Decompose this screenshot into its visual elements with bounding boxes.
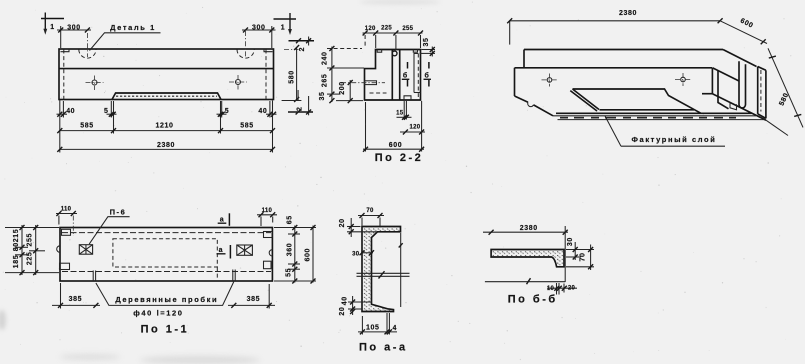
svg-text:255: 255: [402, 26, 413, 32]
section mark 1 (left): bar, arrow, label: [41, 18, 64, 20]
hidden edge right (dashed): [265, 50, 267, 100]
svg-text:б: б: [425, 71, 430, 79]
svg-text:225: 225: [27, 252, 34, 265]
svg-text:600: 600: [389, 142, 402, 149]
right extension lines: [274, 227, 316, 229]
svg-text:2380: 2380: [619, 10, 637, 17]
edge fitting right top: [264, 232, 273, 238]
centerline of right recess: [245, 31, 247, 57]
texture strip top line: [553, 115, 756, 117]
svg-text:185: 185: [13, 255, 20, 268]
edge fitting left top: [62, 229, 71, 235]
groove end slant: [712, 68, 739, 81]
svg-text:585: 585: [240, 123, 253, 130]
svg-text:40: 40: [258, 108, 267, 115]
svg-text:а: а: [219, 247, 224, 254]
wooden plug (side): [365, 81, 377, 85]
svg-text:2: 2: [299, 47, 306, 52]
dim 120 bottom: [400, 131, 425, 133]
dim 2380: [483, 231, 568, 233]
centerline of left recess: [86, 33, 88, 57]
texture layer dashed line (top): [62, 232, 271, 234]
svg-text:30: 30: [567, 237, 574, 246]
plug centerline strokes right: [233, 270, 235, 282]
top dim chain 120/225/255: [363, 32, 423, 34]
bottom extension lines: [60, 283, 62, 309]
inner opening (dashed rectangle): [113, 239, 217, 267]
corner fitting right: [264, 49, 273, 52]
channel section outline with concrete stipple: [362, 227, 401, 312]
svg-text:30: 30: [352, 252, 360, 258]
extension lines below panel: [59, 100, 61, 153]
svg-text:Деревянные пробки: Деревянные пробки: [115, 295, 218, 304]
dim row 585 / 1210 / 585: [60, 130, 273, 132]
edge fitting left bottom: [60, 263, 70, 269]
end rib slab top edge: [758, 67, 766, 71]
broken far edge line with break slash: [485, 281, 565, 283]
svg-text:По 1-1: По 1-1: [141, 323, 190, 335]
panel outline: [59, 49, 274, 100]
right slot: solid + dashed edges: [414, 54, 418, 93]
svg-text:б: б: [403, 71, 408, 79]
front top edge (groove): [515, 67, 713, 69]
svg-text:300: 300: [67, 24, 80, 31]
small rounded foot left of column: [730, 103, 737, 110]
hole left with crosshair: [92, 80, 97, 85]
bottom face right edge (long diagonal): [712, 94, 766, 121]
svg-text:2380: 2380: [157, 142, 175, 149]
SECTION 2-2: [319, 26, 435, 164]
svg-text:ф40 l=120: ф40 l=120: [133, 309, 183, 318]
svg-text:5: 5: [225, 108, 230, 115]
left extension lines: [5, 227, 59, 229]
dim 2 bottom right: [282, 100, 302, 102]
svg-text:55: 55: [285, 268, 292, 277]
svg-text:265: 265: [322, 74, 329, 87]
edge fitting right bottom: [264, 261, 272, 269]
dim 105 / 4 bottom: [361, 316, 363, 335]
svg-text:65: 65: [286, 215, 293, 224]
svg-text:240: 240: [322, 51, 329, 64]
cut mark b (right): strokes and label: [428, 62, 430, 69]
svg-text:70: 70: [580, 253, 587, 262]
svg-text:580: 580: [289, 70, 296, 83]
svg-text:35: 35: [423, 38, 430, 47]
svg-text:4: 4: [393, 325, 398, 332]
svg-text:По б-б: По б-б: [508, 293, 558, 305]
dim chain 65/360/55: [294, 226, 296, 283]
svg-text:5: 5: [104, 108, 109, 115]
svg-text:15: 15: [396, 110, 404, 116]
svg-text:П-6: П-6: [110, 207, 127, 216]
dim row 2380: [60, 148, 273, 150]
dim 600 (slanted): [720, 21, 767, 44]
svg-text:2: 2: [297, 106, 304, 111]
svg-text:2380: 2380: [520, 225, 538, 232]
svg-text:20: 20: [339, 307, 346, 316]
dim 385 left: [52, 304, 100, 306]
pad front edge: [600, 109, 695, 111]
svg-text:105: 105: [366, 325, 379, 332]
SECTION b-b: [483, 225, 594, 305]
hole right crosshair: [681, 77, 686, 82]
svg-text:200: 200: [339, 81, 346, 94]
dim 600 right: [312, 226, 314, 283]
end rib column with rounded foot: [739, 61, 746, 108]
section outline with stepped left side: [365, 50, 421, 101]
dim 110 right: [257, 214, 277, 216]
svg-text:120: 120: [365, 26, 376, 32]
corner fitting left: [61, 49, 70, 52]
top right end slant: [723, 50, 757, 67]
AXONOMETRIC VIEW: [507, 10, 803, 146]
left edge of face: [514, 68, 516, 96]
dim 2 top right: [289, 40, 315, 42]
dim chain 255/225 (inner): [35, 225, 37, 275]
end rib slab front edge: [757, 67, 759, 114]
dim 30: [574, 242, 576, 260]
face bottom edge stub at right: [702, 93, 712, 95]
strip section outline with stipple: [491, 250, 564, 267]
hidden line bottom: [370, 92, 387, 94]
svg-text:70: 70: [366, 208, 374, 214]
svg-text:По а-а: По а-а: [359, 342, 408, 354]
dim 35 right: [422, 49, 436, 51]
top fitting notch right: [413, 50, 417, 53]
svg-text:225: 225: [381, 26, 392, 32]
svg-text:110: 110: [61, 207, 72, 213]
wooden plug left (crossed): [79, 245, 92, 255]
groove line across panel: [59, 68, 274, 70]
svg-text:255: 255: [27, 233, 34, 246]
svg-text:20: 20: [568, 285, 576, 291]
svg-text:1: 1: [50, 24, 55, 31]
hole right with crosshair: [236, 80, 241, 85]
left edge of top band: [523, 50, 525, 68]
dim 2380: [510, 20, 720, 22]
svg-text:385: 385: [247, 296, 260, 303]
svg-text:Деталь 1: Деталь 1: [110, 23, 156, 32]
pad left end slants: [570, 89, 599, 111]
hole left crosshair: [547, 78, 552, 83]
plan outline: [60, 228, 272, 282]
dim 385 right: [228, 304, 275, 306]
edge notch right (semicircle): [269, 250, 272, 256]
cut mark b (left): strokes and label: [407, 62, 409, 69]
inner wall edge with foot slant: [718, 71, 729, 109]
texture strip bottom line: [558, 119, 765, 121]
dim 110 left: [56, 213, 77, 215]
svg-text:20: 20: [339, 218, 346, 227]
dim 20 top left: [347, 226, 361, 228]
dim 15 bottom: [403, 101, 405, 120]
dim 300 right: [271, 26, 273, 48]
svg-text:1210: 1210: [156, 123, 174, 130]
bottom-left slant edge with notch: [515, 96, 554, 116]
svg-text:300: 300: [252, 24, 265, 31]
svg-text:585: 585: [80, 123, 93, 130]
dims 40/20 bottom left: [348, 301, 372, 303]
section mark 1 (right): bar, arrow, label: [274, 18, 297, 20]
svg-text:Фактурный слой: Фактурный слой: [632, 135, 717, 144]
dashed line above bottom: [62, 271, 271, 273]
cut extent thin line with break: [400, 233, 402, 307]
svg-text:80: 80: [13, 242, 20, 251]
svg-text:35: 35: [319, 92, 326, 101]
hole circle: [392, 51, 397, 56]
pad texture dotted line: [116, 95, 217, 97]
dim 70 top: [358, 215, 384, 217]
dim 580 right: [296, 48, 298, 101]
bottom pad (trapezoid): [112, 93, 221, 100]
bottom face front edge: [556, 112, 752, 114]
svg-text:40: 40: [66, 108, 75, 115]
svg-text:120: 120: [410, 125, 421, 131]
dim chain 215/80/185 (outer): [21, 225, 23, 275]
dim 200: [349, 80, 351, 101]
rib edge lines: [391, 50, 393, 101]
svg-text:1: 1: [281, 25, 286, 32]
lifting recess left (dashed arc, detail 1): [79, 50, 96, 59]
dim 300 left: [60, 26, 62, 48]
bottom dims 10 / 20: [556, 283, 558, 295]
texture strip dashes: [560, 117, 736, 119]
hidden edge left (dashed): [63, 50, 65, 100]
svg-text:По 2-2: По 2-2: [375, 152, 424, 164]
dim 580 (slanted): [768, 48, 803, 127]
svg-text:215: 215: [13, 229, 20, 242]
lifting recess right (dashed arc): [237, 50, 254, 59]
top fitting notch left: [377, 50, 382, 53]
dim 600: [421, 101, 423, 152]
svg-text:600: 600: [305, 248, 312, 261]
right edge of face: [711, 68, 713, 94]
plug centerline strokes left: [93, 271, 95, 282]
bottom notch: [404, 96, 411, 100]
PLAN SECTION 1-1: [5, 207, 316, 336]
svg-text:40: 40: [342, 296, 349, 305]
svg-text:10: 10: [547, 286, 555, 292]
FRONT ELEVATION VIEW: [41, 13, 314, 153]
end rib slab hidden edge: [760, 70, 762, 112]
pad on bottom face: top edge, step, right slant: [573, 89, 702, 113]
scan smudges: [0, 0, 440, 364]
back top edge: [524, 49, 723, 51]
edge notch left (semicircle): [57, 246, 60, 253]
dim 70: [590, 245, 592, 271]
svg-text:385: 385: [69, 296, 82, 303]
svg-text:360: 360: [286, 243, 293, 256]
end rib slab outer edge: [765, 70, 767, 118]
dim row 40 / 5 ... 5 / 40: [57, 113, 68, 115]
left dim chain 240/265/35: [331, 47, 333, 103]
svg-text:110: 110: [262, 208, 273, 214]
SECTION a-a: [339, 208, 409, 354]
end rib slab bottom edge: [758, 114, 766, 119]
mid break lines with slash: [357, 272, 410, 274]
right extension lines: [566, 249, 594, 251]
wooden plug right (crossed): [237, 245, 253, 255]
